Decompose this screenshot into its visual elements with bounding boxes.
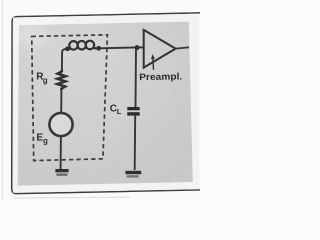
source Eg	[49, 113, 72, 136]
svg-text:L: L	[117, 107, 122, 116]
wire: node down to CL	[135, 48, 138, 107]
wire: Rg to Eg	[60, 90, 62, 112]
wire: amplifier output	[176, 47, 189, 48]
ground (under Eg)	[55, 169, 68, 172]
page background	[0, 0, 200, 200]
scan grain	[18, 22, 193, 186]
wire: coil to amplifier	[99, 47, 144, 48]
wire: CL to ground	[134, 116, 137, 170]
capacitor CL	[127, 107, 139, 110]
svg-text:g: g	[43, 76, 48, 85]
inductor terminal dots	[65, 47, 70, 52]
op-amp Preampl triangle	[144, 30, 176, 68]
inductor	[67, 41, 99, 50]
resistor Rg	[57, 70, 65, 91]
frame shadow line (bottom, faint)	[14, 196, 130, 199]
wire: left branch vertical riser to coil	[62, 49, 67, 70]
page edge line (left)	[2, 0, 4, 200]
wire: Eg to ground	[60, 136, 62, 170]
schematic background	[18, 22, 193, 186]
paper inside frame	[13, 14, 199, 193]
dashed source box	[32, 35, 108, 161]
op-amp gain arrow	[152, 58, 155, 69]
node junction dot	[135, 45, 140, 50]
svg-text:g: g	[43, 137, 48, 146]
svg-text:Preampl.: Preampl.	[139, 70, 182, 82]
ground (under CL)	[125, 171, 141, 174]
scan glare top-left	[16, 24, 48, 48]
